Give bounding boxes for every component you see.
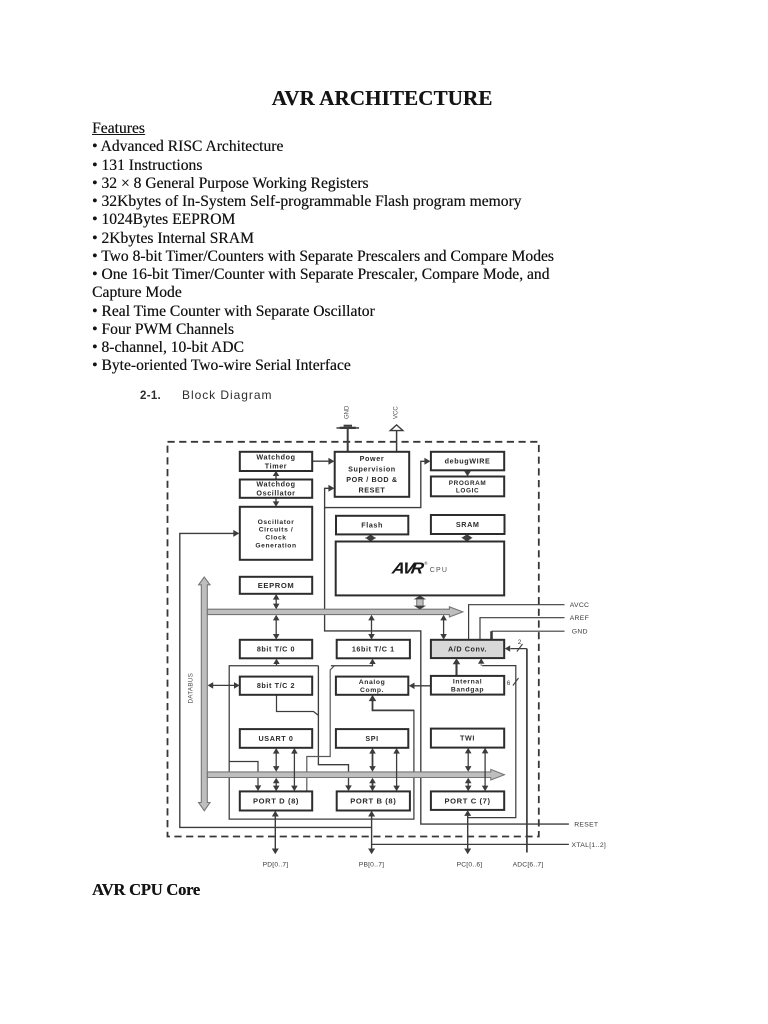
pin labels right [570, 602, 606, 849]
dashed border of block diagram [168, 442, 539, 837]
wire ADC feed into A/D Conv [511, 648, 527, 650]
block Watchdog Oscillator [240, 480, 312, 498]
svg-text:Supervision: Supervision [348, 465, 396, 474]
heading AVR CPU Core [92, 880, 200, 900]
block 16bit T/C 1 [337, 640, 410, 659]
block SRAM [431, 515, 505, 534]
VCC symbol [390, 425, 403, 452]
wire PB pins [368, 811, 375, 855]
svg-text:Watchdog: Watchdog [256, 452, 295, 461]
bus stub Flash-CPU [365, 535, 376, 542]
wire XTAL wire left side [180, 533, 372, 827]
block Internal Bandgap [431, 676, 504, 695]
arrow into debugWIRE [424, 458, 430, 465]
wire Bandgap to A/D Conv [453, 658, 461, 676]
svg-text:PORT D (8): PORT D (8) [253, 797, 299, 806]
svg-text:PC[0..6]: PC[0..6] [457, 861, 483, 868]
arrow into PORT D top [255, 785, 262, 791]
svg-text:PB[0..7]: PB[0..7] [359, 861, 384, 868]
data bus horizontal upper [207, 607, 462, 617]
wire RESET branch to Power Supervision [325, 488, 329, 508]
wire wire leg to PORT D [307, 666, 335, 791]
block Power Supervision [335, 452, 410, 497]
wire AREF line [480, 618, 565, 640]
svg-text:16bit T/C 1: 16bit T/C 1 [352, 645, 395, 654]
title [0, 86, 766, 111]
svg-text:EEPROM: EEPROM [258, 581, 295, 590]
block PORT C (7) [431, 791, 504, 810]
svg-text:XTAL[1..2]: XTAL[1..2] [572, 842, 607, 849]
arrow into 16bit T/C 1 [369, 659, 375, 664]
GND symbol [337, 425, 360, 452]
wire wire T/C0 stub [276, 664, 278, 666]
svg-text:AVR: AVR [390, 559, 426, 577]
wire wire leg to PORT B [318, 666, 348, 786]
wire PC pins [464, 810, 471, 854]
block debugWIRE [431, 452, 504, 471]
wire USART to bus [273, 748, 280, 772]
svg-text:8bit T/C 2: 8bit T/C 2 [257, 681, 295, 690]
bus width slash 2 [517, 644, 523, 652]
svg-text:AVCC: AVCC [570, 602, 590, 609]
svg-text:ADC[6..7]: ADC[6..7] [513, 861, 544, 868]
svg-text:A/D Conv.: A/D Conv. [448, 645, 487, 654]
features list [92, 120, 692, 376]
wire Bandgap to Analog Comp [409, 683, 431, 690]
svg-text:SPI: SPI [365, 734, 378, 743]
wire wire Analog Comp input [373, 701, 414, 710]
svg-text:PD[0..7]: PD[0..7] [263, 861, 289, 868]
wire Watchdog Osc to Watchdog Timer [273, 471, 280, 480]
svg-text:PORT B (8): PORT B (8) [350, 797, 396, 806]
block PORT B (8) [337, 791, 410, 810]
arrow into Power Supervision [328, 485, 334, 492]
block 8bit T/C 0 [240, 640, 312, 659]
wire SPI to bus [369, 748, 376, 772]
wire ADC 6ch stub [480, 665, 482, 666]
block 8bit T/C 2 [240, 677, 312, 695]
wire bus to 16bit T/C 1 [368, 615, 375, 640]
block TWI [431, 729, 504, 748]
wire Watchdog Osc to Oscillator Circuits [273, 498, 280, 507]
wire EEPROM to bus [273, 594, 280, 609]
wire ADC 6-channel tap [468, 666, 516, 818]
wire DATABUS to 8bit T/C 2 [208, 682, 240, 689]
wire debugWIRE to Program Logic [464, 470, 471, 476]
wire GND drop [490, 631, 493, 639]
svg-text:Clock: Clock [265, 535, 286, 542]
svg-text:USART 0: USART 0 [259, 734, 294, 743]
wire bus to A/D Conv [440, 615, 447, 640]
wire TWI to bus [465, 748, 472, 772]
svg-text:Oscillator: Oscillator [256, 489, 295, 498]
arrow into A/D Conv bottom [478, 658, 484, 663]
block Flash [336, 516, 408, 535]
arrow into 8bit T/C 0 [273, 659, 279, 664]
svg-text:Internal: Internal [453, 679, 482, 686]
svg-text:PROGRAM: PROGRAM [449, 480, 487, 487]
svg-text:Flash: Flash [361, 521, 383, 530]
svg-text:Comp.: Comp. [360, 687, 384, 694]
wire ADC pin line [526, 649, 528, 853]
bus stub CPU-bus [414, 596, 427, 610]
block Analog Comp [336, 677, 408, 695]
svg-text:Watchdog: Watchdog [256, 480, 295, 489]
svg-text:debugWIRE: debugWIRE [445, 457, 491, 466]
arrow into Oscillator Circuits [233, 530, 239, 537]
wire wire loop left column [229, 666, 414, 819]
block PROGRAM LOGIC [431, 477, 504, 497]
arrow into PORT B top [345, 785, 352, 791]
svg-text:RESET: RESET [358, 485, 385, 494]
block PORT D (8) [240, 791, 312, 810]
XTAL label line [372, 843, 569, 845]
wire PD pins [272, 811, 279, 855]
svg-text:GND: GND [572, 629, 588, 636]
wire bus to 8bit T/C 0 [273, 615, 280, 640]
wire TWI to PORT C [482, 748, 489, 791]
svg-text:Power: Power [360, 454, 385, 463]
svg-text:PORT C (7): PORT C (7) [445, 796, 491, 805]
svg-text:LOGIC: LOGIC [456, 487, 479, 494]
svg-text:VCC: VCC [394, 406, 400, 419]
wire wire to 16bit T/C 1 [331, 664, 373, 666]
svg-text:DATABUS: DATABUS [188, 673, 195, 704]
svg-text:Oscillator: Oscillator [258, 519, 295, 526]
block USART 0 [240, 729, 312, 748]
arrow into A/D Conv right [505, 645, 510, 651]
wire USART to PORT D [291, 748, 298, 791]
svg-text:SRAM: SRAM [456, 520, 480, 529]
svg-text:POR / BOD &: POR / BOD & [346, 475, 397, 484]
arrow into Analog Comp bottom [369, 695, 377, 701]
svg-text:Analog: Analog [359, 679, 386, 686]
svg-text:GND: GND [345, 405, 351, 419]
svg-text:Circuits /: Circuits / [259, 527, 294, 534]
wire wire from 8bit T/C 2 bottom [277, 695, 319, 716]
wire bus to PORT D [273, 778, 280, 792]
svg-text:Timer: Timer [265, 461, 287, 470]
pin labels bottom [263, 861, 544, 868]
svg-text:RESET: RESET [574, 822, 598, 829]
bus stub SRAM-CPU [461, 534, 472, 541]
svg-text:TWI: TWI [460, 734, 475, 743]
svg-text:CPU: CPU [430, 567, 448, 574]
svg-text:8bit T/C 0: 8bit T/C 0 [257, 645, 295, 654]
svg-text:6: 6 [507, 681, 511, 687]
wire RESET net trunk [325, 508, 569, 824]
wire bus to PORT B [369, 778, 376, 792]
block A/D Conv [431, 640, 504, 658]
svg-text:Generation: Generation [255, 542, 296, 549]
bus width slash 6 [513, 678, 519, 686]
block SPI [336, 729, 408, 748]
block AVR CPU [336, 542, 505, 596]
block EEPROM [240, 577, 312, 594]
wire RESET branch to debugWIRE [325, 461, 425, 507]
section label 2-1 Block Diagram [140, 388, 272, 402]
wire bus to PORT C [465, 778, 472, 792]
block Oscillator Circuits [240, 507, 312, 560]
wire AVCC line [469, 605, 565, 640]
wire Watchdog Timer to Power Supervision [312, 458, 334, 465]
svg-text:AREF: AREF [570, 615, 589, 622]
data bus horizontal lower [207, 769, 504, 780]
wire wire PORT D feed [229, 762, 258, 786]
svg-text:Bandgap: Bandgap [451, 687, 484, 694]
block Watchdog Timer [240, 452, 312, 471]
DATABUS vertical bus [199, 577, 210, 811]
wire SPI to PORT B [393, 748, 400, 791]
wire GND line [492, 630, 565, 632]
